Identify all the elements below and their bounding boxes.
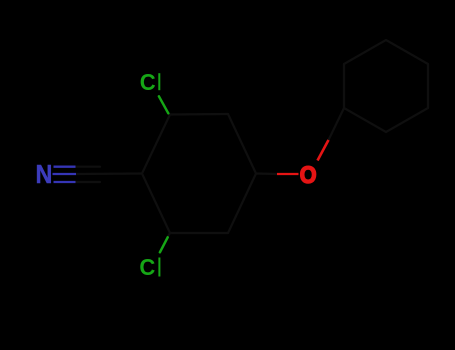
Cl top bond (green) [159, 96, 168, 113]
atom label Cl bottom: l stem [158, 258, 160, 277]
Cl bottom bond carbon end (faint) [168, 233, 171, 237]
C-O bond carbon half (ring to O, faint) [256, 172, 277, 175]
wire triple bond black half bottom [76, 181, 101, 183]
wire ring1 edge BR-BL [170, 232, 228, 234]
ether O-C bond red half (diagonal up-right) [318, 140, 329, 161]
O-C bond carbon half (O to ring2 V1, faint) [329, 108, 345, 140]
wire triple bond blue bottom [54, 181, 76, 183]
ring 2 (faint carbon skeleton hexagon, top right) [344, 40, 428, 132]
wire ring2 edge V5-V6 [344, 40, 386, 64]
wire ring2 edge V3-V4 [427, 64, 429, 108]
wire ring1 edge R-BR [228, 174, 256, 234]
wire ring2 edge V1-V2 [344, 108, 386, 132]
benzene ring 1 (faint carbon skeleton) [142, 114, 256, 233]
wire triple bond black half top [76, 166, 101, 168]
nitrile carbon bonds (faint black halves) [76, 167, 143, 182]
wire ring1 edge TL-TR [170, 113, 228, 116]
Cl top bond carbon end (faint) [168, 113, 170, 115]
svg-text:N: N [36, 161, 53, 189]
wire triple bond blue middle [53, 173, 77, 175]
svg-text:O: O [300, 161, 317, 188]
svg-text:C: C [140, 68, 156, 95]
wire triple bond blue top [54, 166, 76, 168]
nitrile triple bond (blue halves) [53, 167, 77, 182]
wire ring1 edge BL-L [142, 174, 170, 234]
wire ring2 edge V4-V5 [386, 40, 428, 64]
wire ring1 edge TR-R [228, 114, 256, 174]
atom label Cl top: l stem [158, 73, 160, 90]
svg-text:C: C [139, 253, 155, 280]
wire triple bond black half middle + C-ring bond [76, 172, 142, 175]
Cl bottom bond (green) [160, 237, 168, 252]
wire ring2 edge V6-V1 [343, 64, 345, 108]
wire ring2 edge V2-V3 [386, 108, 428, 132]
ether O-C bond red half (horizontal) [277, 173, 299, 175]
wire ring1 edge L-TL [142, 115, 170, 174]
